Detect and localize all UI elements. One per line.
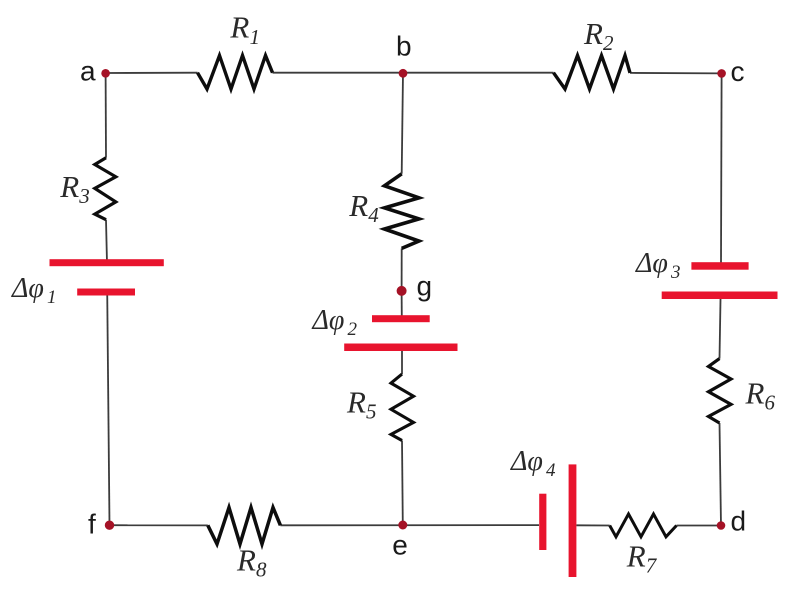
svg-text:6: 6	[765, 391, 776, 415]
svg-text:Δφ: Δφ	[11, 273, 44, 304]
svg-text:R: R	[236, 543, 256, 578]
svg-text:8: 8	[256, 558, 267, 582]
svg-text:5: 5	[366, 400, 377, 424]
svg-text:a: a	[80, 55, 96, 86]
svg-text:R: R	[348, 188, 368, 223]
svg-text:4: 4	[368, 203, 379, 227]
svg-text:Δφ: Δφ	[312, 305, 345, 336]
svg-text:1: 1	[250, 25, 261, 49]
svg-text:3: 3	[670, 262, 681, 283]
svg-text:R: R	[59, 169, 79, 204]
svg-text:Δφ: Δφ	[510, 446, 543, 477]
svg-text:R: R	[229, 10, 249, 45]
svg-text:3: 3	[78, 184, 90, 208]
svg-text:1: 1	[47, 287, 57, 308]
svg-text:2: 2	[603, 31, 614, 55]
svg-text:e: e	[392, 530, 408, 561]
svg-text:R: R	[346, 385, 366, 420]
svg-text:d: d	[731, 505, 747, 536]
svg-text:R: R	[745, 376, 765, 411]
svg-text:R: R	[583, 16, 603, 51]
svg-text:7: 7	[646, 554, 658, 578]
svg-text:c: c	[731, 56, 745, 87]
svg-text:Δφ: Δφ	[635, 248, 668, 279]
svg-text:g: g	[417, 271, 433, 302]
svg-text:4: 4	[546, 460, 556, 481]
svg-text:f: f	[88, 509, 96, 540]
svg-text:2: 2	[348, 319, 358, 340]
svg-text:b: b	[396, 30, 412, 61]
svg-text:R: R	[626, 539, 646, 574]
